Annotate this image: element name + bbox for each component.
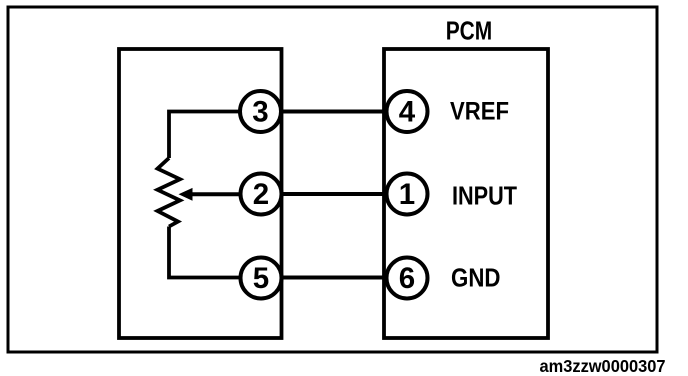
svg-text:1: 1 [399, 178, 415, 211]
sensor box (potentiometer component outline) [119, 49, 282, 338]
pin 6 [387, 258, 428, 299]
svg-text:PCM: PCM [446, 18, 493, 46]
svg-text:am3zzw0000307: am3zzw0000307 [540, 356, 666, 376]
svg-text:3: 3 [252, 96, 268, 129]
svg-text:GND: GND [451, 265, 501, 293]
net label VREF [450, 98, 509, 126]
potentiometer R1 (zigzag element) [158, 158, 181, 227]
svg-text:2: 2 [253, 178, 269, 211]
wire: pin 3 to potentiometer top [169, 112, 261, 159]
net label GND [451, 265, 501, 293]
pin 5 [241, 258, 282, 299]
wire: potentiometer bottom to pin 5 [169, 227, 261, 278]
pin 4 [387, 91, 428, 132]
pin 1 [387, 174, 428, 215]
pin 2 [241, 174, 282, 215]
svg-text:5: 5 [253, 262, 269, 295]
svg-text:4: 4 [399, 96, 416, 129]
svg-text:VREF: VREF [450, 98, 509, 126]
potentiometer wiper arrow from pin 2 [179, 188, 262, 201]
wire INPUT: pin 2 to pin 1 [261, 192, 407, 196]
pin 3 [240, 91, 281, 132]
wire GND: pin 5 to pin 6 [261, 276, 407, 280]
svg-text:INPUT: INPUT [452, 181, 517, 211]
PCM box U1 [384, 49, 548, 338]
label PCM [446, 18, 493, 46]
svg-text:6: 6 [399, 262, 415, 295]
wire VREF: pin 3 to pin 4 [261, 110, 408, 114]
caption am3zzw0000307 [540, 356, 666, 376]
net label INPUT [452, 181, 517, 211]
